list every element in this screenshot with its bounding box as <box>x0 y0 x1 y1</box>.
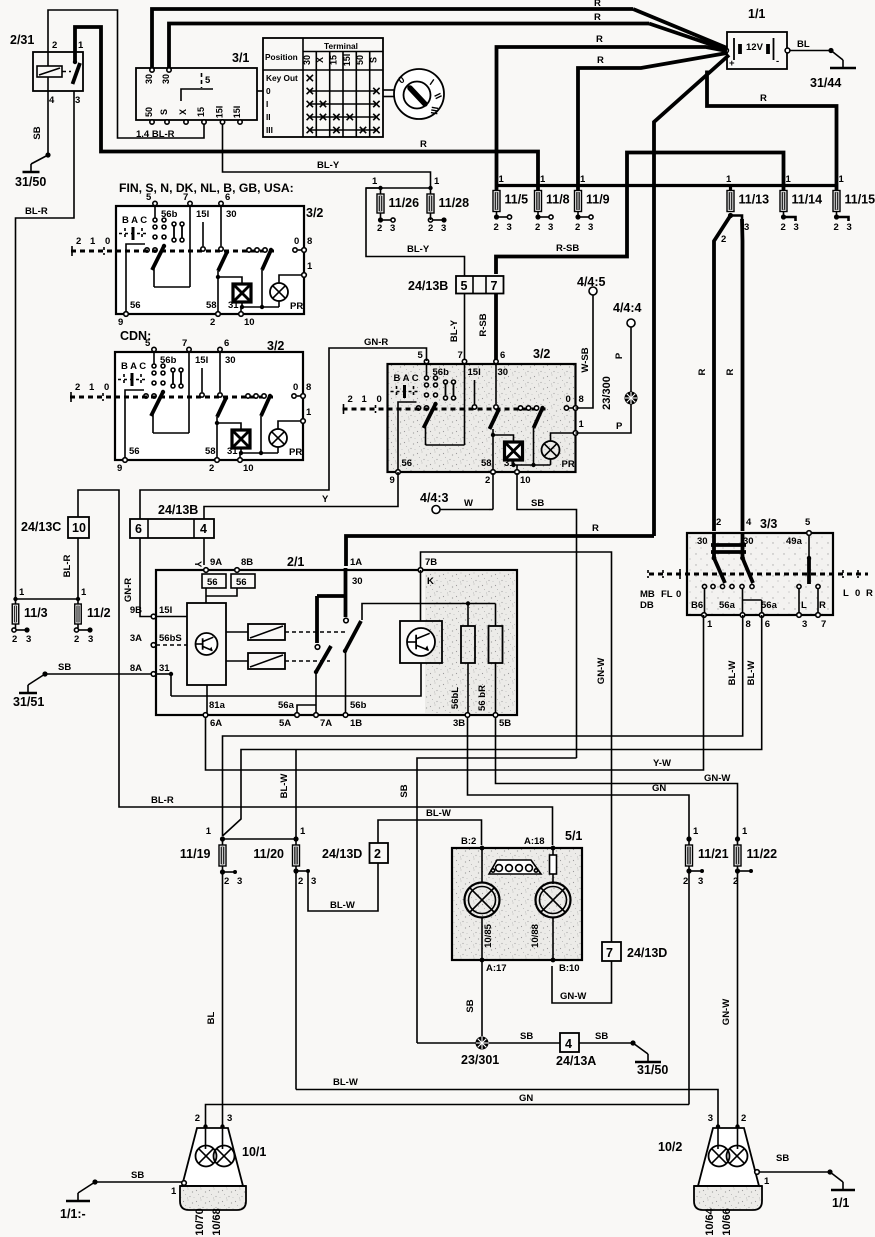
SB chain to 24/13A and 31/50 <box>489 1042 560 1044</box>
svg-text:0: 0 <box>266 86 271 96</box>
svg-text:MB: MB <box>640 589 655 600</box>
svg-text:R-SB: R-SB <box>478 313 489 336</box>
run GN-W 783.5 : 2/1 5B to 11/22 pin1 <box>496 717 738 839</box>
svg-text:15I: 15I <box>159 605 172 616</box>
wire GN-W branch : 2/1 7B to 24/13D 7 to 5/1 B10 <box>421 552 612 942</box>
fuse 11/26 <box>377 194 419 213</box>
svg-text:SB: SB <box>465 999 476 1012</box>
svg-text:81a: 81a <box>209 700 226 711</box>
svg-text:49a: 49a <box>786 536 803 547</box>
fuse 11/5 <box>493 191 528 212</box>
svg-text:X: X <box>315 57 325 63</box>
svg-text:2: 2 <box>210 317 215 328</box>
3/2 right contacts and blade <box>247 248 251 252</box>
3/2 contact dots <box>153 218 157 222</box>
svg-text:BL-R: BL-R <box>62 555 73 578</box>
svg-text:P: P <box>616 421 623 432</box>
run SB 758 : 23/301 chain to pin10 SB <box>417 758 577 1043</box>
svg-text:3: 3 <box>75 95 80 106</box>
svg-text:1: 1 <box>206 826 212 837</box>
svg-text:1: 1 <box>90 236 96 247</box>
svg-text:50: 50 <box>144 107 154 117</box>
svg-text:2: 2 <box>75 382 80 393</box>
svg-text:15I: 15I <box>215 106 225 119</box>
svg-text:2: 2 <box>348 394 353 405</box>
3/2 linkage dashed <box>71 250 276 253</box>
svg-text:3/2: 3/2 <box>306 206 323 220</box>
svg-text:56bS: 56bS <box>159 633 182 644</box>
wire SB to ground 1/1 <box>759 1171 830 1173</box>
svg-text:GN-W: GN-W <box>721 999 732 1025</box>
svg-text:B A C: B A C <box>394 373 419 384</box>
fuse 11/8 <box>535 191 570 212</box>
2/1 switch blades <box>316 646 331 672</box>
svg-text:10/2: 10/2 <box>658 1140 682 1154</box>
wire BL : 11/19 pin2 down to lamp 10/1 pin3 <box>222 872 224 1127</box>
svg-text:R: R <box>420 139 427 150</box>
3/2 pin 8 <box>564 406 568 410</box>
svg-text:2: 2 <box>428 223 433 234</box>
2/1 resistor rail <box>362 604 496 621</box>
wire R-SB 7box to 3/2 pin6 <box>494 294 498 363</box>
svg-text:11/9: 11/9 <box>586 193 610 207</box>
3/2 58 wire to pin2 <box>492 429 494 472</box>
svg-text:24/13A: 24/13A <box>556 1054 596 1068</box>
3/2 mid contacts and blade <box>202 222 204 246</box>
5/1 left bulb <box>481 848 483 883</box>
svg-text:5: 5 <box>418 350 424 361</box>
svg-text:15: 15 <box>196 107 206 117</box>
pin1 line 11/26-11/28 <box>366 187 431 189</box>
svg-text:Key Out: Key Out <box>266 73 298 83</box>
2/1 left pins <box>151 614 156 619</box>
svg-text:10: 10 <box>520 475 531 486</box>
svg-text:7: 7 <box>458 350 463 361</box>
lamp 10/2 right parking (bulbs 10/64 10/66) <box>658 1113 770 1236</box>
wire P: 3/2 pin1 to 23/300 and 4/4:4 <box>576 404 632 433</box>
3/2 photocell square <box>505 442 523 460</box>
svg-text:3: 3 <box>794 222 799 233</box>
svg-text:5: 5 <box>146 192 152 203</box>
wire: 2/31 pin3 BL-R down left side <box>16 91 75 599</box>
24/13D connector 2 <box>370 843 389 863</box>
svg-text:0: 0 <box>855 588 860 599</box>
svg-text:24/13B: 24/13B <box>158 503 198 517</box>
svg-text:8: 8 <box>746 619 751 630</box>
3/2 right contacts and blade <box>518 406 522 410</box>
3/2 mid contacts and blade <box>474 380 476 404</box>
svg-text:30: 30 <box>225 355 236 366</box>
svg-text:GN-W: GN-W <box>596 658 607 684</box>
svg-text:11/28: 11/28 <box>439 196 470 210</box>
3/1 symbol 5 <box>201 73 203 88</box>
svg-text:31: 31 <box>504 458 515 469</box>
svg-text:15I: 15I <box>195 355 208 366</box>
svg-text:4: 4 <box>49 95 55 106</box>
wire R fan4 to fuse 11/9 <box>578 53 727 190</box>
3/2 pin 1 <box>279 275 304 283</box>
fuse 11/13 <box>727 191 769 212</box>
svg-text:23/300: 23/300 <box>601 376 613 410</box>
svg-text:6: 6 <box>765 619 770 630</box>
3/2 pin9 riser <box>126 244 145 314</box>
svg-text:BL-W: BL-W <box>279 774 290 799</box>
fuse 11/15 <box>833 191 875 212</box>
3/2 adjuster dashes <box>124 228 126 239</box>
svg-text:5A: 5A <box>279 718 291 729</box>
svg-text:6: 6 <box>135 522 142 536</box>
svg-text:5/1: 5/1 <box>565 829 582 843</box>
wire BL-W : 11/20 pin2 down to run 1089.5 <box>295 871 297 1090</box>
fuse 11/22 <box>734 845 777 866</box>
svg-text:A:18: A:18 <box>524 836 545 847</box>
3/2 pin 1 <box>278 421 303 429</box>
svg-text:0: 0 <box>566 394 571 405</box>
svg-text:2: 2 <box>52 40 57 51</box>
svg-text:GN: GN <box>519 1093 533 1104</box>
svg-text:2: 2 <box>781 222 786 233</box>
svg-text:3: 3 <box>548 222 553 233</box>
svg-text:7B: 7B <box>425 557 437 568</box>
3/2 adjuster dashes <box>123 374 125 385</box>
3/3 thick staple <box>712 533 716 558</box>
svg-text:8: 8 <box>307 236 312 247</box>
24/13B connector 6 4 <box>130 519 214 538</box>
3/2 right contacts and blade <box>246 394 250 398</box>
light switch 3/2 box at 116,206 <box>116 206 304 314</box>
svg-text:11/5: 11/5 <box>505 193 529 207</box>
svg-text:0: 0 <box>294 236 299 247</box>
5/1 right bulb <box>536 883 571 918</box>
svg-text:R: R <box>697 368 708 375</box>
3/2 pin 8 <box>293 248 297 252</box>
svg-text:1/1: 1/1 <box>748 7 765 21</box>
3/2 linkage dashed <box>343 408 548 411</box>
svg-text:4/4:4: 4/4:4 <box>613 301 642 315</box>
wire BL-Y 5box to 3/2 pin7 <box>464 294 466 363</box>
wire BL-W tap to 5/1 B2 via 24/13D 2 <box>308 863 378 911</box>
fuse hooks 2,3 <box>535 214 540 219</box>
wire SB 3/2 pin10 right <box>517 473 577 758</box>
svg-text:3: 3 <box>847 222 852 233</box>
ground 31/50 bottom <box>647 1054 649 1062</box>
svg-text:B:10: B:10 <box>559 963 580 974</box>
relay 2/31 box <box>33 52 83 91</box>
svg-text:BL-Y: BL-Y <box>407 244 430 255</box>
wire Y: 3/2 pin9 to 4box to 2/1 9A <box>204 472 398 519</box>
svg-text:11/14: 11/14 <box>792 193 823 207</box>
pin1 link 11/19 11/20 <box>223 838 297 840</box>
svg-text:2: 2 <box>535 222 540 233</box>
svg-text:56a: 56a <box>719 600 736 611</box>
svg-text:0: 0 <box>293 382 298 393</box>
svg-text:4: 4 <box>200 522 207 536</box>
svg-text:I: I <box>266 99 268 109</box>
wire R battery bottom to fuse 11/15 <box>707 71 837 191</box>
3/2 31 node to pin10 <box>240 448 242 453</box>
svg-text:1: 1 <box>579 419 585 430</box>
svg-text:3/3: 3/3 <box>760 517 777 531</box>
svg-text:11/22: 11/22 <box>747 847 778 861</box>
fuse 11/20 <box>253 845 299 866</box>
svg-text:30: 30 <box>144 74 154 84</box>
3/3 blades <box>712 556 717 561</box>
svg-text:31: 31 <box>228 300 239 311</box>
svg-text:2: 2 <box>209 463 214 474</box>
3/2 contact dots <box>425 376 429 380</box>
lamp 10/1 left parking (bulbs 10/70 10/68) <box>171 1113 266 1236</box>
svg-text:GN-W: GN-W <box>704 773 730 784</box>
svg-text:11/20: 11/20 <box>253 847 284 861</box>
run BL-W 736 : 11/19 pin1 to 3/3 pin8 <box>223 615 743 836</box>
svg-text:3: 3 <box>802 619 807 630</box>
svg-text:6: 6 <box>224 338 229 349</box>
svg-text:30: 30 <box>697 536 708 547</box>
svg-text:3A: 3A <box>130 633 142 644</box>
svg-text:SB: SB <box>32 126 43 139</box>
3/2 pin 8 <box>292 394 296 398</box>
svg-text:2: 2 <box>74 634 79 645</box>
svg-text:0: 0 <box>104 382 109 393</box>
fuse 11/9 <box>575 191 610 212</box>
svg-text:GN-W: GN-W <box>560 991 586 1002</box>
svg-text:5: 5 <box>205 75 211 86</box>
wire R fan1 <box>633 9 727 48</box>
2/1 top pins <box>204 568 209 573</box>
3/2 mid contacts and blade <box>201 368 203 392</box>
wire 3/2 pin2 down to W line <box>492 473 494 510</box>
svg-text:4/4:3: 4/4:3 <box>420 491 449 505</box>
svg-text:III: III <box>266 125 273 135</box>
2/1 driver block <box>187 603 226 685</box>
2/1 5A 7A jog <box>297 705 316 716</box>
svg-text:PR: PR <box>290 301 303 312</box>
svg-text:GN: GN <box>652 783 666 794</box>
svg-text:R-SB: R-SB <box>556 243 579 254</box>
fuse bus pin1 line <box>497 184 837 187</box>
svg-text:1: 1 <box>764 1176 770 1187</box>
wire: 2/31 pin4 SB to ground 31/50 <box>47 91 49 155</box>
3/3 linkage dashed <box>649 573 868 576</box>
wire: 2/31 pin1 R thick to fuse 11/8 <box>75 27 538 190</box>
svg-text:10/64: 10/64 <box>704 1207 716 1235</box>
svg-text:1/1: 1/1 <box>832 1196 849 1210</box>
3/2 photocell square <box>233 284 251 302</box>
svg-text:12V: 12V <box>746 42 764 53</box>
svg-text:2: 2 <box>195 1113 200 1124</box>
svg-text:1: 1 <box>434 176 440 187</box>
wire R fan2 <box>649 24 727 51</box>
svg-text:1: 1 <box>693 826 699 837</box>
fuse 11/21 <box>686 845 729 866</box>
svg-text:B:2: B:2 <box>461 836 476 847</box>
svg-text:11/26: 11/26 <box>389 196 420 210</box>
wire GN-R to middle 3/2 pin5 and 24/13B-6 <box>140 348 427 519</box>
svg-text:1: 1 <box>300 826 306 837</box>
wire GN-W : 11/22 pin2 down to lamp 10/2 pin2 <box>737 871 739 1127</box>
3/2 adjuster dashes <box>396 386 398 397</box>
svg-text:BL-W: BL-W <box>333 1077 358 1088</box>
wire W-SB: 3/2 pin8 to 4/4:5 <box>576 295 594 408</box>
3/2 31 node to pin10 <box>513 460 515 465</box>
svg-text:6: 6 <box>225 192 230 203</box>
svg-text:R: R <box>725 368 736 375</box>
3/2 photocell square <box>232 430 250 448</box>
svg-text:8: 8 <box>579 394 584 405</box>
svg-text:56a: 56a <box>761 600 778 611</box>
svg-text:R: R <box>597 55 604 66</box>
svg-text:10/66: 10/66 <box>721 1208 733 1236</box>
wire: 15I BL-Y down to 11/28 <box>223 124 431 188</box>
3/2 56b switch blade <box>426 364 428 376</box>
run GN 797 : 2/1 3B to 11/21 pin1 <box>468 717 690 839</box>
relay 2/31 coil <box>37 66 62 77</box>
svg-text:SB: SB <box>595 1031 608 1042</box>
svg-text:II: II <box>266 112 271 122</box>
svg-text:Y: Y <box>192 561 203 568</box>
svg-text:8B: 8B <box>241 557 253 568</box>
svg-text:15I: 15I <box>232 106 242 119</box>
5/1 fusible link <box>552 848 554 884</box>
svg-text:SB: SB <box>399 784 410 797</box>
svg-text:BL-Y: BL-Y <box>449 319 460 342</box>
svg-text:7: 7 <box>606 946 613 960</box>
svg-text:Y: Y <box>322 494 329 505</box>
svg-text:5: 5 <box>145 338 151 349</box>
3/2 56b switch blade <box>153 352 155 364</box>
2/1 31 rail to output transistor <box>170 674 172 696</box>
lamp relay module 2/1 box <box>130 555 517 729</box>
svg-text:1: 1 <box>81 587 87 598</box>
3/2 contact dots <box>152 364 156 368</box>
svg-text:3: 3 <box>708 1113 713 1124</box>
24/13D connector 7 <box>602 942 621 961</box>
svg-text:SB: SB <box>131 1170 144 1181</box>
svg-text:3/2: 3/2 <box>267 339 284 353</box>
svg-text:1: 1 <box>171 1186 177 1197</box>
svg-text:B A C: B A C <box>121 361 146 372</box>
svg-text:BL-R: BL-R <box>151 795 174 806</box>
svg-text:0: 0 <box>676 589 681 600</box>
svg-text:11/8: 11/8 <box>546 193 570 207</box>
svg-text:K: K <box>427 576 434 587</box>
svg-text:30: 30 <box>498 367 509 378</box>
svg-text:R: R <box>760 93 767 104</box>
svg-text:56 bR: 56 bR <box>477 685 488 711</box>
2/1 56 boxes <box>202 574 226 588</box>
relay 2/31 dashed link <box>62 71 71 73</box>
instrument cluster 5/1 box <box>452 829 582 974</box>
fuse 11/28 <box>427 194 469 213</box>
wire R steep diagonal to 654 vertical <box>654 55 729 536</box>
2/1 resistors 56bL 56bR <box>461 626 475 663</box>
wire: 2/31 pin2 to ignition pin 15 (thin loop over top) <box>48 10 204 138</box>
wire: thick 30-left up to R bus y9 <box>152 9 633 68</box>
ground 31/44 <box>842 60 844 68</box>
24/13C connector 10 <box>68 517 89 538</box>
3/3 bottom pins <box>702 613 707 618</box>
svg-text:3: 3 <box>237 876 242 887</box>
svg-text:9: 9 <box>117 463 122 474</box>
light switch 3/2 box at 115,352 <box>115 352 303 460</box>
svg-text:1: 1 <box>839 174 845 185</box>
fuse 11/2 <box>75 604 82 624</box>
svg-text:9: 9 <box>390 475 395 486</box>
run BL-W 749.5 : 11/19 pin1 to 3/3 pin6 <box>223 615 762 836</box>
svg-text:31/50: 31/50 <box>15 175 46 189</box>
svg-text:56: 56 <box>130 300 141 311</box>
svg-text:10: 10 <box>243 463 254 474</box>
svg-text:1: 1 <box>499 174 505 185</box>
pin1 line 11/3 11/2 <box>16 598 79 600</box>
3/3 inner pin wires <box>704 588 706 615</box>
ground 1/1:- <box>77 1193 79 1201</box>
svg-text:15I: 15I <box>342 54 352 67</box>
svg-text:10/1: 10/1 <box>242 1145 266 1159</box>
svg-text:GN-R: GN-R <box>364 337 388 348</box>
svg-text:7A: 7A <box>320 718 332 729</box>
svg-text:2: 2 <box>374 847 381 861</box>
svg-text:1: 1 <box>78 40 84 51</box>
svg-text:4: 4 <box>565 1037 572 1051</box>
2/1 6A wire <box>206 685 208 716</box>
run BL-W 1089.5 to lamp 10/2 pin3 <box>296 1090 718 1127</box>
svg-text:56: 56 <box>402 458 413 469</box>
svg-text:24/13C: 24/13C <box>21 520 61 534</box>
svg-text:31/51: 31/51 <box>13 695 44 709</box>
3/2 31 node to pin10 <box>241 302 243 307</box>
svg-text:6: 6 <box>500 350 505 361</box>
svg-text:BL-W: BL-W <box>426 808 451 819</box>
wire R thick pair down to 3/3 <box>714 216 731 532</box>
3/2 pin9 riser <box>398 402 417 472</box>
svg-text:10/88: 10/88 <box>530 924 541 948</box>
svg-text:9A: 9A <box>210 557 222 568</box>
svg-text:S: S <box>159 109 169 115</box>
24/13A connector 4 <box>560 1033 579 1052</box>
wire: thick 30-right up to R bus y23.5 <box>169 24 649 69</box>
wire: battery BL to ground 31/44 <box>790 50 831 52</box>
svg-text:23/301: 23/301 <box>461 1053 499 1067</box>
svg-text:11/13: 11/13 <box>739 193 770 207</box>
svg-text:BL: BL <box>797 39 810 50</box>
svg-text:30: 30 <box>302 55 312 65</box>
wire SB : A17 to 23/301 <box>481 960 483 1036</box>
svg-text:BL-R: BL-R <box>25 206 48 217</box>
svg-text:11/19: 11/19 <box>180 847 211 861</box>
svg-text:BL-W: BL-W <box>746 661 757 686</box>
svg-text:3: 3 <box>744 222 749 233</box>
svg-text:11/15: 11/15 <box>845 193 875 207</box>
svg-text:3: 3 <box>88 634 93 645</box>
svg-text:7: 7 <box>183 192 188 203</box>
3/2 pin 1 <box>551 433 576 441</box>
svg-text:SB: SB <box>531 498 544 509</box>
svg-text:30: 30 <box>161 74 171 84</box>
svg-text:3: 3 <box>441 223 446 234</box>
svg-text:24/13D: 24/13D <box>322 847 362 861</box>
svg-text:W-SB: W-SB <box>580 347 591 372</box>
svg-text:3: 3 <box>390 223 395 234</box>
svg-text:X: X <box>178 109 188 115</box>
fuse hooks 2,3 <box>575 214 580 219</box>
3/3 contact circles <box>702 584 706 588</box>
fuse 11/19 <box>180 845 226 866</box>
svg-text:2: 2 <box>741 1113 746 1124</box>
svg-text:L: L <box>843 588 849 599</box>
svg-text:0: 0 <box>105 236 110 247</box>
svg-text:3: 3 <box>698 876 703 887</box>
